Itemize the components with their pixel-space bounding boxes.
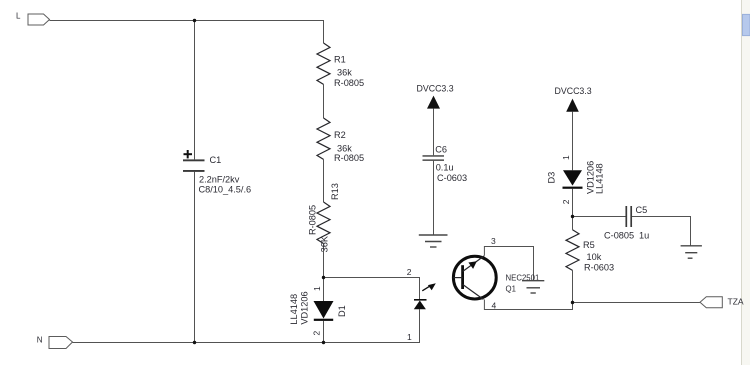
svg-text:R5: R5 xyxy=(583,240,595,250)
svg-text:N: N xyxy=(37,336,43,345)
svg-text:1: 1 xyxy=(407,332,412,342)
svg-text:36K: 36K xyxy=(320,235,330,252)
svg-text:LL4148: LL4148 xyxy=(289,294,299,325)
svg-text:C1: C1 xyxy=(210,155,222,165)
svg-text:C-0603: C-0603 xyxy=(437,173,467,183)
svg-text:R-0805: R-0805 xyxy=(307,205,317,235)
svg-text:C6: C6 xyxy=(435,145,447,155)
svg-text:C8/10_4.5/.6: C8/10_4.5/.6 xyxy=(199,185,252,195)
svg-text:Q1: Q1 xyxy=(506,284,516,293)
svg-text:D1: D1 xyxy=(337,305,347,317)
svg-text:TZA: TZA xyxy=(728,297,744,307)
svg-text:R13: R13 xyxy=(330,183,340,200)
svg-text:DVCC3.3: DVCC3.3 xyxy=(555,86,592,96)
svg-text:2: 2 xyxy=(561,199,571,204)
svg-text:L: L xyxy=(16,12,21,21)
svg-text:D3: D3 xyxy=(547,172,557,184)
svg-text:2.2nF/2kv: 2.2nF/2kv xyxy=(199,175,240,185)
svg-text:3: 3 xyxy=(491,236,496,246)
svg-text:2: 2 xyxy=(407,267,412,277)
svg-text:VD1206: VD1206 xyxy=(300,291,310,324)
svg-text:LL4148: LL4148 xyxy=(595,163,605,194)
svg-text:36k: 36k xyxy=(337,68,352,78)
svg-text:R-0805: R-0805 xyxy=(334,78,364,88)
svg-text:R1: R1 xyxy=(334,55,346,65)
svg-text:R-0805: R-0805 xyxy=(334,153,364,163)
svg-text:10k: 10k xyxy=(587,252,602,262)
svg-text:1: 1 xyxy=(561,155,571,160)
svg-text:C5: C5 xyxy=(636,205,648,215)
svg-text:R2: R2 xyxy=(334,130,346,140)
svg-text:1u: 1u xyxy=(639,231,649,241)
svg-text:C-0805: C-0805 xyxy=(604,231,634,241)
svg-text:0.1u: 0.1u xyxy=(436,162,454,172)
svg-text:4: 4 xyxy=(492,301,497,311)
svg-text:2: 2 xyxy=(312,331,322,336)
svg-text:DVCC3.3: DVCC3.3 xyxy=(417,84,454,94)
svg-text:R-0603: R-0603 xyxy=(584,263,614,273)
svg-text:1: 1 xyxy=(312,286,322,291)
